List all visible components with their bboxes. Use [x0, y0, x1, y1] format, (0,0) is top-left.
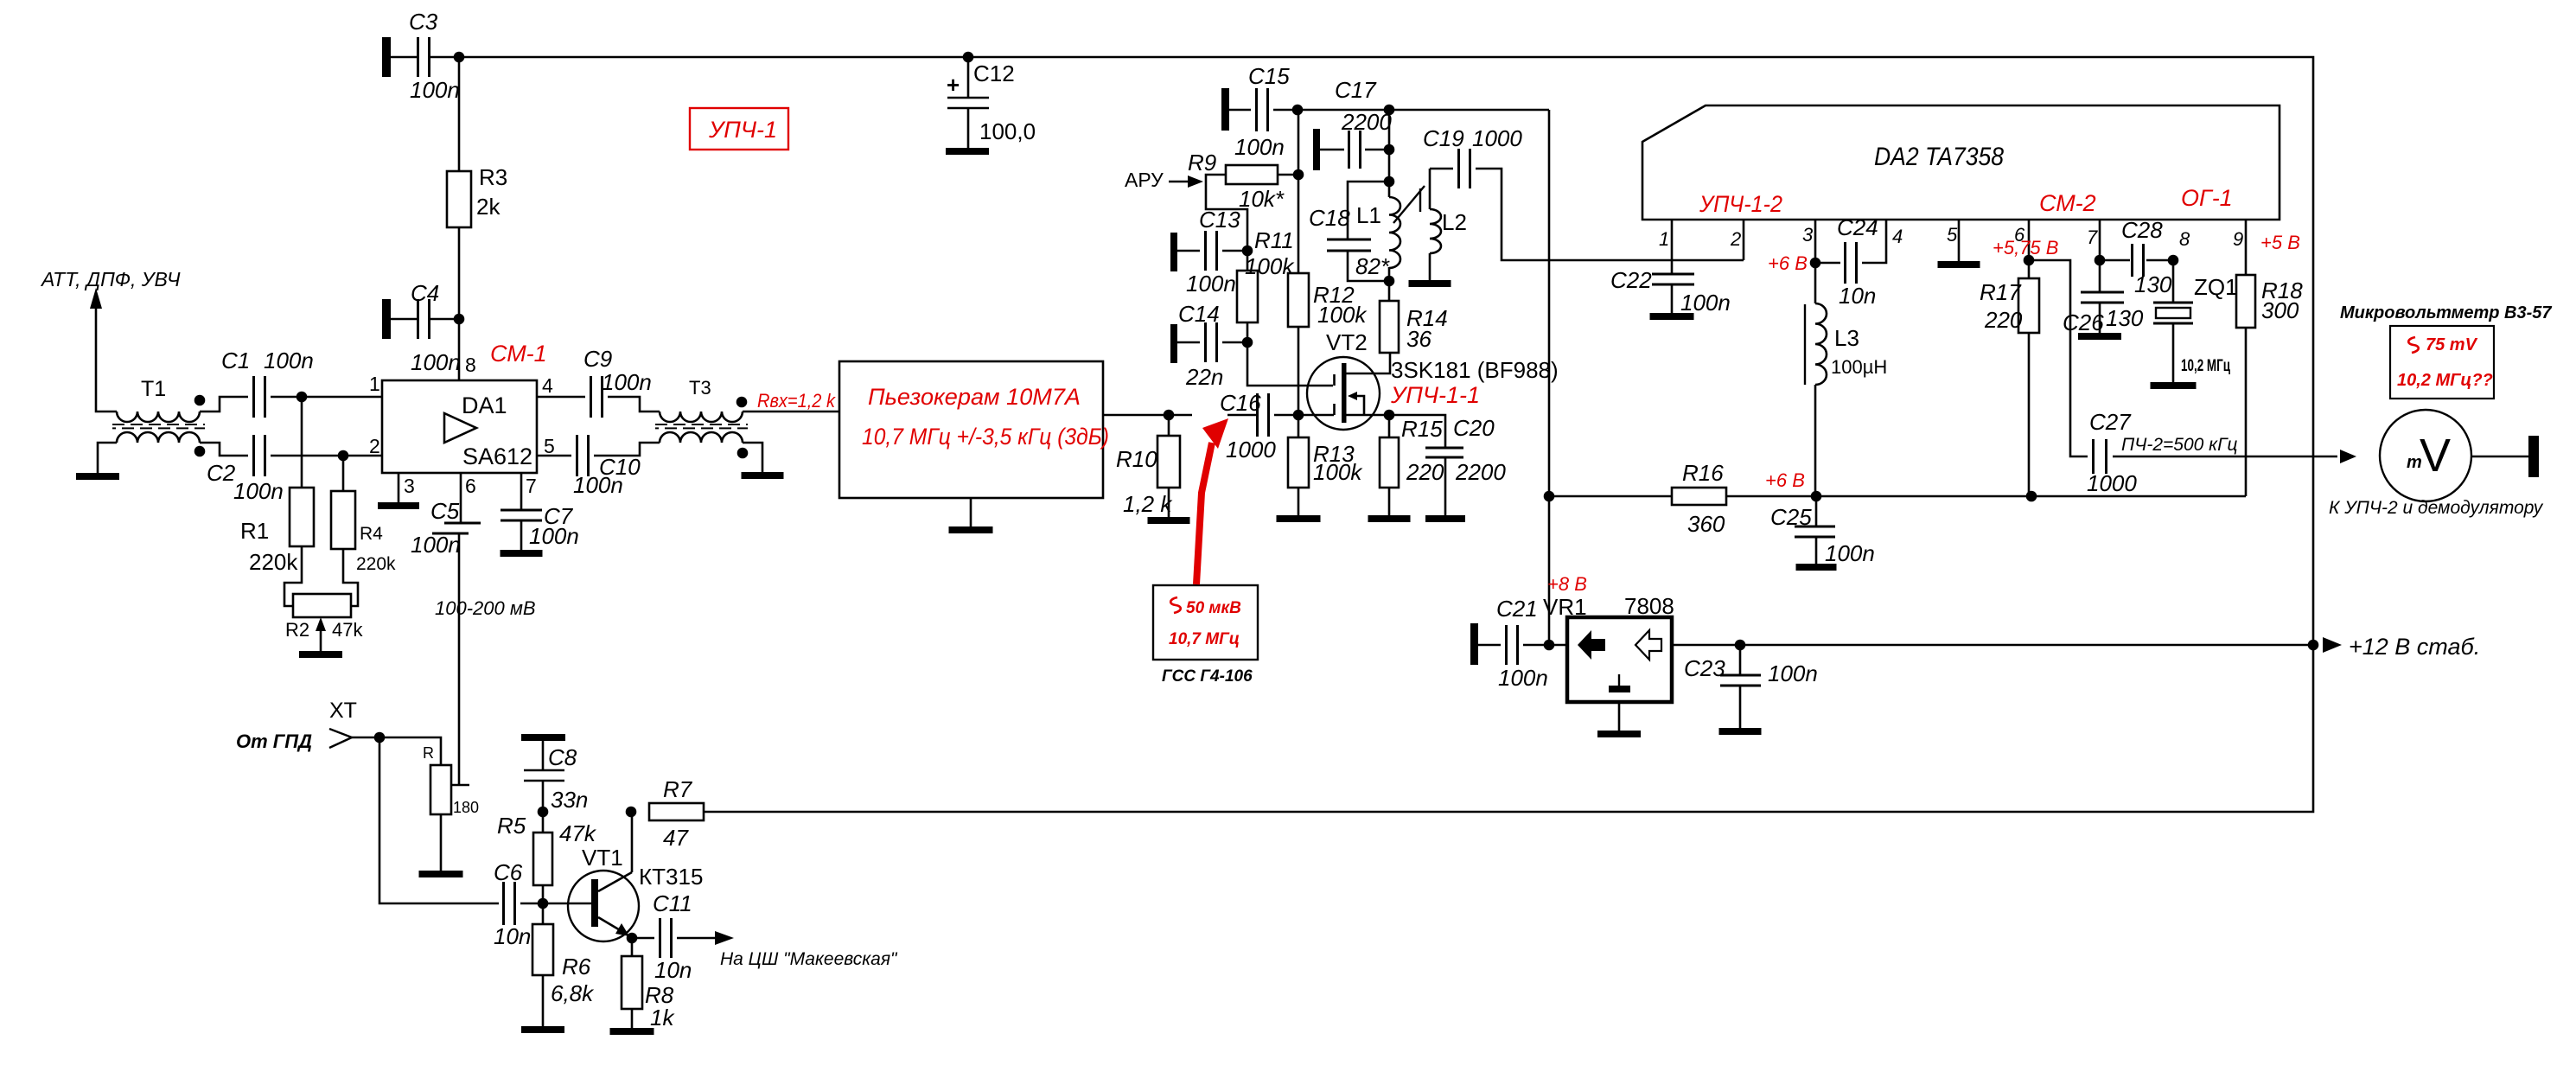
- svg-text:2: 2: [369, 435, 380, 457]
- svg-text:R15: R15: [1401, 416, 1443, 442]
- svg-text:4: 4: [542, 374, 553, 397]
- svg-text:220: 220: [1984, 307, 2023, 333]
- svg-text:9: 9: [2233, 228, 2243, 250]
- svg-text:36: 36: [1406, 326, 1431, 352]
- svg-text:10n: 10n: [494, 923, 531, 949]
- svg-text:C23: C23: [1684, 655, 1725, 681]
- svg-text:75 mV: 75 mV: [2426, 335, 2478, 354]
- svg-text:100,0: 100,0: [979, 118, 1036, 144]
- svg-text:R16: R16: [1682, 460, 1724, 486]
- svg-text:Rвх=1,2 k: Rвх=1,2 k: [757, 390, 836, 412]
- svg-text:C11: C11: [653, 890, 692, 916]
- svg-text:C26: C26: [2063, 309, 2104, 335]
- svg-text:5: 5: [1947, 224, 1958, 246]
- svg-text:C25: C25: [1770, 504, 1812, 530]
- svg-text:Пьезокерам 10М7А: Пьезокерам 10М7А: [868, 384, 1081, 410]
- svg-text:50 мкВ: 50 мкВ: [1186, 599, 1241, 617]
- svg-text:+8 В: +8 В: [1547, 573, 1587, 595]
- svg-text:47k: 47k: [559, 820, 597, 846]
- svg-text:6: 6: [465, 475, 476, 497]
- svg-text:3: 3: [404, 475, 415, 497]
- svg-text:10n: 10n: [1839, 283, 1876, 309]
- svg-text:УПЧ-1-1: УПЧ-1-1: [1390, 382, 1480, 408]
- svg-text:C20: C20: [1453, 415, 1495, 441]
- svg-text:100n: 100n: [1186, 271, 1236, 297]
- svg-text:+6 В: +6 В: [1765, 469, 1805, 491]
- svg-text:ОГ-1: ОГ-1: [2181, 185, 2233, 211]
- svg-text:VT2: VT2: [1326, 329, 1368, 355]
- svg-text:R6: R6: [562, 954, 591, 979]
- svg-text:УПЧ-1-2: УПЧ-1-2: [1699, 191, 1782, 217]
- svg-text:3: 3: [1802, 224, 1814, 246]
- svg-text:R2: R2: [285, 619, 309, 641]
- svg-text:47k: 47k: [332, 619, 363, 641]
- svg-text:100n: 100n: [602, 369, 652, 395]
- svg-text:100n: 100n: [1680, 290, 1731, 316]
- svg-text:R5: R5: [497, 813, 526, 839]
- svg-text:6,8k: 6,8k: [551, 980, 595, 1006]
- svg-text:Микровольтметр В3-57: Микровольтметр В3-57: [2340, 303, 2552, 322]
- svg-text:10,2 МГц: 10,2 МГц: [2181, 357, 2230, 375]
- svg-text:На ЦШ "Макеевская": На ЦШ "Макеевская": [720, 949, 898, 969]
- svg-text:82*: 82*: [1355, 253, 1390, 279]
- svg-text:100n: 100n: [1825, 540, 1875, 566]
- svg-text:КТ315: КТ315: [639, 864, 703, 890]
- svg-text:C27: C27: [2089, 409, 2132, 435]
- svg-text:T3: T3: [689, 377, 711, 399]
- svg-text:ГСС Г4-106: ГСС Г4-106: [1162, 667, 1253, 686]
- svg-text:300: 300: [2261, 297, 2299, 323]
- svg-text:3SK181 (BF988): 3SK181 (BF988): [1391, 357, 1559, 383]
- svg-text:+5 В: +5 В: [2260, 232, 2300, 253]
- svg-text:R10: R10: [1116, 446, 1157, 472]
- svg-text:10,7 МГц: 10,7 МГц: [1169, 630, 1240, 648]
- svg-text:ZQ1: ZQ1: [2194, 274, 2238, 300]
- svg-text:C5: C5: [430, 498, 460, 524]
- svg-text:R7: R7: [663, 776, 693, 802]
- svg-text:C18: C18: [1309, 205, 1350, 231]
- svg-text:1,2 k: 1,2 k: [1123, 491, 1173, 517]
- svg-text:АРУ: АРУ: [1125, 169, 1164, 191]
- svg-text:100n: 100n: [233, 478, 284, 504]
- svg-text:1000: 1000: [1226, 437, 1276, 463]
- svg-text:220k: 220k: [249, 549, 298, 575]
- svg-text:C24: C24: [1837, 214, 1878, 240]
- svg-text:СМ-1: СМ-1: [490, 341, 547, 367]
- svg-text:АТТ, ДПФ, УВЧ: АТТ, ДПФ, УВЧ: [40, 268, 181, 290]
- svg-text:R1: R1: [240, 518, 269, 544]
- svg-text:C8: C8: [548, 744, 577, 770]
- svg-text:C13: C13: [1199, 207, 1240, 233]
- svg-text:ХТ: ХТ: [329, 699, 357, 723]
- svg-text:1k: 1k: [650, 1005, 675, 1031]
- svg-text:100n: 100n: [529, 523, 579, 549]
- svg-text:100µH: 100µH: [1831, 356, 1887, 378]
- svg-text:СМ-2: СМ-2: [2039, 190, 2096, 216]
- svg-text:2200: 2200: [1455, 459, 1506, 485]
- svg-text:180: 180: [453, 799, 479, 816]
- svg-text:7: 7: [526, 475, 537, 497]
- svg-text:7: 7: [2087, 227, 2098, 248]
- svg-text:R: R: [423, 744, 434, 762]
- svg-text:От ГПД: От ГПД: [236, 731, 312, 752]
- svg-text:R17: R17: [1980, 279, 2022, 305]
- svg-text:7808: 7808: [1624, 593, 1674, 619]
- svg-text:33n: 33n: [551, 787, 588, 813]
- svg-text:DA2 TA7358: DA2 TA7358: [1874, 143, 2004, 171]
- svg-text:100n: 100n: [410, 77, 460, 103]
- svg-text:100n: 100n: [411, 349, 461, 375]
- svg-text:DA1: DA1: [462, 392, 507, 418]
- svg-text:10,2 МГц??: 10,2 МГц??: [2397, 371, 2493, 390]
- svg-text:130: 130: [2106, 305, 2144, 331]
- svg-text:L1: L1: [1356, 202, 1381, 228]
- svg-text:C9: C9: [583, 346, 612, 372]
- svg-text:1000: 1000: [1472, 125, 1522, 151]
- svg-text:+6 В: +6 В: [1768, 252, 1808, 274]
- svg-text:10k*: 10k*: [1239, 186, 1285, 212]
- svg-text:R11: R11: [1254, 227, 1294, 253]
- svg-text:2k: 2k: [476, 194, 501, 220]
- svg-text:+: +: [947, 72, 960, 98]
- svg-text:L2: L2: [1442, 209, 1467, 235]
- svg-text:C4: C4: [411, 280, 439, 306]
- svg-text:100n: 100n: [411, 532, 461, 558]
- svg-text:C12: C12: [973, 61, 1015, 86]
- svg-text:T1: T1: [141, 377, 166, 401]
- svg-text:L3: L3: [1834, 325, 1859, 351]
- svg-text:C22: C22: [1610, 267, 1652, 293]
- svg-text:360: 360: [1687, 511, 1725, 537]
- svg-text:1000: 1000: [2087, 470, 2137, 496]
- svg-text:VT1: VT1: [582, 845, 623, 871]
- svg-text:4: 4: [1892, 226, 1903, 247]
- svg-text:C19: C19: [1423, 125, 1464, 151]
- svg-text:100k: 100k: [1313, 459, 1363, 485]
- svg-text:ПЧ-2=500 кГц: ПЧ-2=500 кГц: [2121, 435, 2238, 455]
- svg-text:К УПЧ-2 и демодулятору: К УПЧ-2 и демодулятору: [2329, 498, 2544, 518]
- svg-text:2: 2: [1730, 228, 1741, 250]
- svg-text:100n: 100n: [573, 472, 623, 498]
- svg-text:8: 8: [465, 354, 476, 376]
- svg-text:C2: C2: [207, 460, 236, 486]
- svg-text:R4: R4: [360, 524, 383, 544]
- svg-text:10,7 МГц +/-3,5 кГц (3дБ): 10,7 МГц +/-3,5 кГц (3дБ): [862, 424, 1109, 450]
- svg-text:10n: 10n: [654, 957, 692, 983]
- svg-text:130: 130: [2134, 271, 2172, 297]
- svg-text:47: 47: [663, 825, 689, 851]
- svg-text:C28: C28: [2121, 217, 2163, 243]
- svg-text:1: 1: [1659, 228, 1669, 250]
- svg-text:C15: C15: [1248, 63, 1290, 89]
- svg-text:100-200 мВ: 100-200 мВ: [435, 597, 536, 619]
- svg-text:C6: C6: [494, 859, 523, 885]
- svg-text:R3: R3: [479, 164, 507, 190]
- svg-text:220k: 220k: [356, 554, 396, 574]
- svg-text:+12 В стаб.: +12 В стаб.: [2349, 634, 2480, 660]
- svg-text:C21: C21: [1496, 596, 1538, 622]
- svg-text:8: 8: [2179, 228, 2190, 250]
- svg-text:C1: C1: [221, 348, 250, 373]
- svg-text:V: V: [2420, 430, 2451, 482]
- svg-text:5: 5: [544, 435, 555, 457]
- svg-text:C3: C3: [409, 9, 438, 35]
- svg-text:2200: 2200: [1341, 109, 1392, 135]
- svg-text:22n: 22n: [1185, 364, 1223, 390]
- svg-text:SA612: SA612: [462, 443, 532, 469]
- svg-text:100n: 100n: [264, 348, 314, 373]
- svg-text:C16: C16: [1220, 390, 1261, 416]
- svg-text:1: 1: [369, 373, 380, 395]
- svg-text:УПЧ-1: УПЧ-1: [708, 117, 777, 143]
- svg-text:100k: 100k: [1317, 302, 1368, 328]
- svg-text:C17: C17: [1335, 77, 1377, 103]
- svg-text:C14: C14: [1178, 301, 1220, 327]
- svg-text:100n: 100n: [1234, 134, 1285, 160]
- svg-text:220: 220: [1406, 459, 1444, 485]
- svg-text:R9: R9: [1188, 150, 1216, 175]
- svg-text:+5,75 В: +5,75 В: [1993, 237, 2058, 258]
- svg-text:100n: 100n: [1498, 665, 1548, 691]
- svg-text:100n: 100n: [1768, 660, 1818, 686]
